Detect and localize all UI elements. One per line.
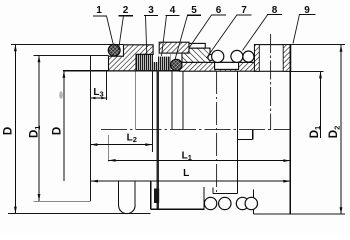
lower seat plate left tick xyxy=(212,187,214,193)
lower seat plate bottom xyxy=(213,193,238,195)
extension line top right (D2) xyxy=(291,44,345,46)
seat retainer tab xyxy=(189,43,205,48)
svg-text:2: 2 xyxy=(123,5,129,16)
svg-text:L2: L2 xyxy=(127,133,137,145)
scan smudge xyxy=(59,91,63,99)
svg-text:3: 3 xyxy=(148,5,154,16)
lower plate left vertical xyxy=(203,187,205,210)
lower right collar edge xyxy=(252,190,254,214)
o-ring 5 xyxy=(171,59,182,70)
gland bar (part 6 top) xyxy=(159,42,189,53)
clamp collar right hatch strip xyxy=(283,45,290,72)
spring ball 1 xyxy=(212,50,224,62)
svg-text:L1: L1 xyxy=(182,151,192,163)
spring notch white xyxy=(152,54,158,62)
spring ball 2 xyxy=(231,50,243,62)
collar (part 2) xyxy=(109,45,154,71)
svg-text:4: 4 xyxy=(170,5,176,16)
dimension D1 left line xyxy=(38,55,40,201)
svg-text:L: L xyxy=(183,168,189,179)
svg-text:D: D xyxy=(51,127,63,135)
gland bolt right line xyxy=(134,181,136,206)
sleeve face vertical line xyxy=(89,55,91,201)
dimension L3 xyxy=(90,97,106,99)
svg-text:D1: D1 xyxy=(309,126,322,138)
dimension D1 right line xyxy=(320,71,322,138)
bottom base line right xyxy=(253,213,344,215)
lower spring ball 4 xyxy=(245,197,257,209)
gland bolt round bottom xyxy=(119,206,136,214)
svg-text:6: 6 xyxy=(216,5,222,16)
dimension D line xyxy=(14,44,16,213)
svg-text:1: 1 xyxy=(96,5,102,16)
seat hole centerline xyxy=(216,71,218,195)
clamp collar left hatch strip xyxy=(255,45,260,72)
seal ring block xyxy=(182,48,210,62)
gland bolt left line xyxy=(118,181,120,206)
seat bore step vertical xyxy=(252,130,254,140)
extension line notch left xyxy=(152,71,154,152)
svg-text:D2: D2 xyxy=(328,126,341,138)
o-ring 1 xyxy=(108,44,120,56)
dimension L xyxy=(90,180,290,182)
extension line top left (D) xyxy=(11,43,124,45)
extension line L3 right xyxy=(105,70,107,100)
dimension L2 xyxy=(90,144,152,146)
dimension D2 line xyxy=(340,45,342,215)
svg-text:5: 5 xyxy=(191,5,197,16)
extension line spring left xyxy=(135,71,137,129)
lower bottom edge xyxy=(151,208,204,210)
lower collar left edge xyxy=(150,181,152,209)
extension line seal face left xyxy=(171,71,173,129)
extension line D1 bottom xyxy=(34,200,91,202)
gland right inner vertical xyxy=(236,71,238,193)
set screw centerline xyxy=(270,34,272,130)
seat support layer xyxy=(179,62,254,71)
spring ball 3 xyxy=(243,51,254,62)
lower spring ball 1 xyxy=(204,197,216,209)
lower spring ball 3 xyxy=(236,197,248,209)
dimension L1 xyxy=(109,160,291,162)
extension line sleeve step (D1 left) xyxy=(34,54,109,56)
gland body right edge xyxy=(289,45,291,215)
drive pin dark band xyxy=(156,71,159,209)
small circle behind springs xyxy=(208,55,214,61)
clamp collar (part 9) xyxy=(255,45,291,72)
svg-text:D1: D1 xyxy=(29,126,42,138)
shaft centerline xyxy=(101,129,290,131)
extension line seal face right xyxy=(182,71,184,129)
svg-text:D: D xyxy=(3,127,15,135)
seat plate white xyxy=(215,62,239,69)
extension line right (D1 right) xyxy=(290,70,323,72)
svg-text:L3: L3 xyxy=(93,87,103,99)
bottom base line left xyxy=(8,213,151,215)
shaft top surface line xyxy=(63,70,290,72)
spring cross-section body xyxy=(136,54,170,70)
extension line L1 left xyxy=(107,135,109,162)
lower spring ball 2 xyxy=(219,197,231,209)
dimension D shaft line xyxy=(63,71,65,181)
seat bore step horizontal xyxy=(237,138,252,140)
lower drive pin xyxy=(154,189,159,204)
